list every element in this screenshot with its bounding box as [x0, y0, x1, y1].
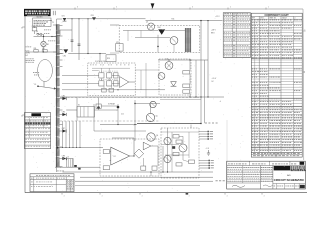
inductor L1 (choke winding): [185, 28, 191, 52]
wire: [195, 60, 197, 97]
wire: [55, 166, 100, 168]
power switch S1: [36, 31, 42, 36]
driver transistor Q2: [170, 37, 178, 45]
resistor R44: [141, 166, 146, 170]
junction: [133, 155, 134, 156]
ground symbol: [208, 150, 210, 153]
wire: [43, 37, 45, 42]
resistor R24: [183, 71, 190, 74]
resistor R52: [189, 160, 195, 163]
svg-text:4: 4: [64, 195, 65, 197]
wire: [207, 21, 209, 97]
svg-text:4: 4: [189, 195, 190, 197]
wire: [135, 37, 170, 39]
wire: [145, 63, 147, 97]
U1 pin stub labels: [90, 64, 129, 67]
ground rail wire: [63, 171, 214, 173]
resistor R19 box: [106, 55, 116, 62]
rectifier CR6: [62, 113, 66, 116]
junction: [57, 147, 59, 149]
transistor Q7: [164, 137, 171, 144]
junction: [150, 171, 151, 172]
wire U1 output: [135, 89, 165, 91]
wire: [127, 30, 129, 41]
rectifier CR4 (protection diode): [158, 29, 165, 34]
company name banner: [274, 166, 306, 171]
filter cap C2 wire: [71, 19, 73, 52]
filter cap C3 wire: [78, 19, 80, 60]
wire: [34, 36, 57, 38]
zone marker triangle: [151, 3, 155, 8]
resistor R25: [183, 84, 190, 88]
regulator stage dashed enclosure: [159, 59, 191, 95]
connector label: [205, 122, 218, 125]
label: [57, 170, 64, 173]
wire: [42, 33, 44, 35]
transistor Q4: [158, 73, 165, 80]
svg-text:+15 V: +15 V: [212, 78, 218, 80]
rectifier CR1: [63, 18, 67, 21]
bridge CR9 diamond: [134, 149, 143, 158]
fuse F1 box: [32, 28, 37, 31]
zener VR1: [171, 82, 177, 87]
junction: [117, 124, 118, 125]
net label: [216, 179, 225, 182]
wire: [142, 158, 144, 166]
junction: [117, 89, 118, 90]
chassis boundary dashed line lower: [60, 120, 160, 122]
zone ticks top: [75, 7, 270, 10]
resistor R41: [103, 166, 109, 170]
wire: [93, 104, 95, 131]
input note text: [26, 59, 35, 63]
wire: [56, 19, 58, 25]
junction: [189, 96, 190, 97]
wire: [110, 24, 119, 26]
io connection list header: [224, 12, 248, 15]
io connection list table: [223, 13, 250, 58]
wire: [165, 154, 189, 156]
wire shield drain: [38, 86, 55, 88]
resistor R40: [103, 150, 109, 154]
capacitor C9 (feedthru): [117, 106, 120, 109]
revision/application table: [24, 113, 50, 149]
rectifier CR11: [78, 168, 80, 170]
approval stamp (inverse title block): [24, 9, 51, 16]
line filter FL1: [42, 50, 47, 53]
wire: [200, 21, 202, 124]
relay K1 internal contacts: [81, 107, 89, 118]
rectifier CR2: [63, 49, 68, 53]
wire: [204, 60, 206, 123]
component chart table frame: [251, 13, 302, 157]
transistor Q6: [147, 133, 155, 141]
arrowhead: [54, 87, 56, 89]
component chart entries: [252, 20, 302, 157]
wire T1 bottom lead: [56, 167, 58, 172]
resistor R54: [176, 163, 182, 166]
wire: [135, 69, 159, 71]
wire: [100, 124, 137, 126]
wire: [135, 103, 160, 105]
pass transistor Q1: [147, 23, 154, 30]
wire: [62, 74, 99, 76]
bottom rail wire: [75, 180, 213, 182]
svg-text:4: 4: [304, 29, 305, 31]
svg-text:4: 4: [227, 195, 228, 197]
junction: [43, 36, 44, 37]
left column annotations: [26, 30, 56, 76]
output stage dashed enclosure: [161, 128, 199, 178]
title block bottom row text: [274, 185, 299, 188]
wire: [76, 98, 78, 122]
wire +V rail: [67, 18, 146, 20]
wire: [123, 29, 158, 31]
output connector stubs upper: [199, 131, 213, 140]
resistor R50: [173, 135, 179, 138]
wire: [188, 132, 190, 158]
U1 internal pin labels: [99, 71, 118, 80]
chassis boundary dashed line upper: [60, 97, 200, 99]
rectifier CR5: [62, 97, 66, 100]
title block security stamp: [300, 162, 305, 165]
op-amp U2: [111, 147, 130, 165]
junction: [43, 51, 44, 52]
return rail wire: [80, 176, 213, 178]
title block top row text: [228, 163, 296, 166]
parts list entries: [31, 175, 75, 189]
svg-text:NOTES:: NOTES:: [37, 17, 44, 19]
wire: [66, 109, 77, 111]
wire: [60, 96, 224, 98]
revision table entries: [25, 117, 50, 146]
io connection list entries: [224, 14, 250, 57]
capacitor C2 plates: [71, 39, 74, 41]
junction: [87, 53, 88, 54]
wire: [34, 27, 36, 29]
input power label 117V 60Hz: [25, 50, 30, 56]
svg-text:4: 4: [102, 195, 103, 197]
zone ticks bottom: [62, 193, 265, 198]
wire: [140, 30, 142, 37]
error amplifier module dashed enclosure: [100, 139, 159, 176]
svg-text:4: 4: [264, 195, 265, 197]
notes box: [33, 18, 52, 26]
svg-text:+28 V: +28 V: [211, 30, 217, 32]
transistor Q5A: [150, 101, 156, 107]
junction: [71, 18, 72, 19]
transformer T1 primary/secondary winding: [56, 25, 60, 168]
title block frame: [227, 161, 306, 189]
parts list table: [30, 174, 74, 192]
wire: [94, 130, 146, 132]
wire: [95, 109, 119, 111]
component chart column headers: [252, 17, 296, 20]
wire: [34, 31, 36, 34]
resistor R51: [173, 152, 179, 155]
junction: [134, 103, 135, 104]
wire: [167, 128, 169, 172]
wire: [101, 105, 118, 107]
wire: [165, 29, 185, 31]
blower motor B1: [41, 41, 49, 46]
svg-text:U2: U2: [114, 156, 116, 158]
bottom rail wire 2: [75, 185, 200, 187]
wire: [57, 53, 64, 55]
wire: [173, 44, 175, 52]
wire bus to connector: [137, 123, 201, 125]
wire: [26, 51, 56, 53]
U1 internal wiring: [92, 68, 130, 88]
zone labels left: [21, 27, 25, 118]
resistor R45: [152, 166, 157, 170]
wire: [157, 35, 159, 47]
sheet border frame: [24, 9, 307, 193]
wire: [87, 19, 89, 54]
resistor R26: [183, 90, 190, 93]
terminal pins: [52, 11, 54, 15]
svg-text:4: 4: [142, 195, 143, 197]
T1 primary tap stubs: [53, 25, 56, 52]
thermal breaker CB1: [34, 50, 38, 53]
svg-text:60 Hz: 60 Hz: [25, 53, 30, 55]
signature scrawl: [232, 185, 245, 187]
approval signature rows: [227, 167, 273, 181]
capacitor C3 plates: [78, 43, 81, 45]
wire: [110, 151, 111, 153]
shield loop (cable shield): [38, 60, 53, 82]
series pass module dashed enclosure: [119, 26, 200, 53]
wire: [117, 104, 119, 125]
rectifier CR7: [62, 129, 66, 132]
secondary tap bus wires: [62, 121, 81, 148]
wire: [112, 74, 120, 76]
signature scrawl 2: [263, 185, 273, 187]
junction: [168, 59, 169, 60]
rectifier CR10: [74, 165, 77, 167]
scan noise speckle: [25, 10, 303, 192]
wire: [98, 98, 100, 110]
wire: [162, 146, 164, 172]
wire: [43, 82, 45, 87]
RT1 thermistor box: [116, 44, 124, 52]
wire: [43, 47, 45, 52]
wire: [171, 132, 173, 172]
wire: [189, 60, 191, 71]
filter choke L3: [67, 159, 73, 168]
wire: [110, 52, 119, 54]
junction: [207, 20, 208, 21]
wire: [99, 54, 101, 61]
wire: [150, 104, 152, 113]
wire: [182, 152, 184, 160]
wire: [62, 89, 135, 91]
relay K1 box: [77, 107, 95, 118]
transistor Q8: [164, 155, 171, 162]
wire feedback: [130, 155, 134, 157]
output connector stubs lower: [199, 160, 214, 169]
wire: [161, 144, 179, 146]
wire: [134, 100, 136, 141]
wire: [151, 145, 158, 147]
U1 internal resistor network: [99, 73, 118, 92]
wire: [160, 99, 201, 101]
comparator U3: [143, 142, 151, 150]
svg-text:COMPONENT CHART: COMPONENT CHART: [264, 14, 289, 17]
svg-text:F1: F1: [32, 26, 34, 28]
wire: [150, 172, 152, 176]
wire (faint vertical to title block): [226, 120, 228, 181]
svg-text:T1: T1: [52, 22, 54, 24]
component chart row rules: [251, 22, 302, 157]
rectifier CR3: [92, 17, 96, 20]
wire: [140, 70, 142, 90]
rectifier CR16: [172, 146, 175, 149]
wire: [179, 135, 183, 137]
wire +28V rail: [146, 20, 223, 22]
svg-text:CIRCUIT SCHEMATIC: CIRCUIT SCHEMATIC: [274, 178, 305, 182]
junction: [200, 96, 201, 97]
wire: [158, 59, 208, 61]
wire: [129, 81, 135, 83]
sheet number cell: [300, 185, 305, 188]
rectifier CR8: [62, 157, 66, 160]
capacitor C8 box: [96, 104, 101, 108]
junction: [37, 85, 39, 87]
junction: [157, 46, 159, 48]
junction: [200, 20, 201, 21]
resistor R53: [176, 140, 182, 143]
wire secondary common: [57, 147, 104, 149]
transistor Q9: [179, 144, 187, 152]
wire: [161, 131, 199, 133]
wire: [57, 35, 60, 37]
zone labels right: [303, 29, 305, 72]
transistor Q5: [146, 113, 154, 121]
svg-text:R19: R19: [107, 58, 110, 60]
U1 error amplifier: [120, 77, 129, 88]
reference designator labels: [26, 30, 56, 76]
wire: [190, 125, 192, 129]
T1 secondary tap stubs: [59, 26, 62, 167]
regulator module U1 dashed enclosure: [88, 63, 135, 96]
transistor Q3: [165, 62, 173, 70]
